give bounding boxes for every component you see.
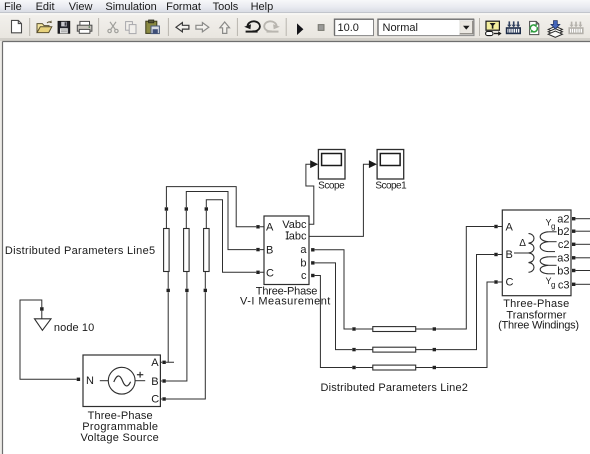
icon: undo (244, 21, 260, 32)
arrowhead into scope1 (369, 160, 377, 168)
icon: start simulation (297, 23, 303, 35)
distributed parameters line2 block (3 sections) (373, 327, 416, 370)
icon: library browser (548, 21, 562, 38)
svg-text:A: A (266, 222, 274, 234)
svg-text:B: B (151, 376, 158, 388)
svg-text:Distributed Parameters Line5: Distributed Parameters Line5 (5, 245, 155, 257)
svg-text:C: C (506, 277, 514, 289)
wire line2 row3 to transformer C (416, 282, 503, 368)
icon: redo (disabled) (264, 21, 280, 32)
icon: stop simulation (disabled) (318, 25, 324, 31)
wire transformer c3 out (576, 283, 590, 285)
three-phase programmable voltage source (80, 355, 160, 444)
wire transformer a2 out (576, 218, 590, 220)
wire line2 row1 to transformer A (416, 227, 503, 330)
icon: forward arrow (196, 23, 209, 32)
winding 3 coil (540, 257, 549, 274)
wire transformer c2 out (576, 243, 590, 245)
port squares voltage source (77, 361, 166, 401)
icon: back arrow (176, 23, 189, 32)
wire source A to line5 col1 (160, 272, 174, 363)
icon: new model (12, 20, 22, 32)
port squares V-I (256, 225, 314, 277)
wire line5 col1 to V-I port A (166, 187, 264, 229)
three-phase transformer (three windings) block (498, 210, 579, 332)
svg-text:(Three Windings): (Three Windings) (498, 320, 579, 332)
svg-text:B: B (506, 249, 513, 261)
wire V-I b to line2 row2 (315, 263, 373, 350)
icon: print (77, 21, 92, 33)
wire Iabc to Scope1 (309, 164, 369, 236)
winding 1 coil (529, 234, 534, 273)
icon: save (58, 21, 70, 33)
svg-text:c: c (301, 270, 307, 282)
winding 2 coil (540, 232, 549, 252)
svg-text:Voltage Source: Voltage Source (80, 432, 158, 444)
wire line2 row2 to transformer B (416, 255, 503, 350)
svg-text:a2: a2 (557, 213, 569, 225)
svg-text:b3: b3 (557, 266, 569, 278)
svg-text:c3: c3 (558, 279, 570, 291)
icon: update diagram (530, 21, 539, 34)
svg-text:A: A (151, 357, 159, 369)
svg-text:a: a (300, 244, 307, 256)
distributed parameters line5 block (3 sections) (164, 229, 210, 272)
svg-text:Distributed Parameters Line2: Distributed Parameters Line2 (321, 382, 468, 394)
svg-text:B: B (266, 244, 273, 256)
icon: cut (disabled) (108, 22, 118, 33)
wire source B to line5 col2 (160, 272, 187, 381)
icon: mask editor (disabled) (569, 22, 583, 34)
wire V-I a to line2 row1 (315, 250, 373, 329)
arrowhead into scope (310, 160, 318, 168)
svg-text:g: g (551, 280, 555, 289)
sim mode dropdown (378, 19, 474, 35)
port squares transformer (494, 217, 575, 286)
toolbar background (0, 15, 590, 38)
icon: simulink debugger (507, 21, 521, 33)
svg-text:node 10: node 10 (54, 322, 94, 334)
svg-text:a3: a3 (557, 253, 569, 265)
svg-text:Scope1: Scope1 (375, 181, 407, 192)
svg-text:g: g (551, 222, 555, 231)
icon: model browser (486, 21, 502, 36)
icon: up arrow (220, 22, 230, 33)
svg-text:A: A (506, 221, 514, 233)
svg-text:C: C (266, 268, 274, 280)
wire transformer b3 out (576, 270, 590, 272)
wire node10 to N (20, 300, 77, 379)
wire Vabc to Scope (306, 164, 314, 224)
wire transformer b2 out (576, 230, 590, 232)
wire source C to line5 col3 (160, 272, 205, 399)
svg-text:Scope: Scope (318, 181, 345, 192)
svg-text:N: N (86, 375, 94, 387)
scope block (318, 150, 345, 192)
scope1 block (375, 150, 407, 192)
svg-text:Vabc: Vabc (282, 219, 307, 231)
svg-text:Three-Phase: Three-Phase (503, 298, 569, 310)
svg-text:b: b (300, 257, 306, 269)
wire V-I c to line2 row3 (315, 276, 373, 368)
sim time field (335, 19, 374, 35)
svg-text:Δ: Δ (519, 238, 526, 249)
icon: copy (disabled) (126, 22, 136, 34)
svg-text:C: C (151, 394, 159, 406)
svg-text:c2: c2 (558, 239, 570, 251)
icon: paste (146, 20, 160, 34)
wire transformer a3 out (576, 257, 590, 259)
menu bar (0, 0, 590, 12)
port squares line5 (165, 207, 208, 292)
port squares line2 (352, 327, 436, 369)
toolbar separators (30, 18, 480, 36)
three-phase V-I measurement block (240, 216, 330, 308)
icon: open (37, 20, 52, 32)
ground node 10 (35, 307, 95, 334)
svg-text:b2: b2 (557, 226, 569, 238)
wire line5 col3 to V-I port C (206, 200, 264, 272)
svg-text:V-I Measurement: V-I Measurement (240, 296, 330, 308)
wire line5 col2 to V-I port B (186, 192, 264, 250)
